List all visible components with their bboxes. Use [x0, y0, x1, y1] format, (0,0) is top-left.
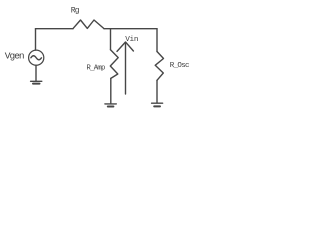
resistor Rg [73, 20, 104, 29]
source Vgen circle [29, 50, 44, 65]
svg-text:Vin: Vin [125, 36, 138, 44]
svg-text:Rg: Rg [71, 7, 80, 16]
svg-text:R_Amp: R_Amp [87, 64, 105, 72]
wire right branch bottom [156, 80, 158, 102]
sine wave [31, 56, 42, 60]
svg-text:R_Osc: R_Osc [170, 62, 189, 70]
arrow Vin shaft [125, 43, 127, 95]
resistor R_Amp [110, 50, 118, 79]
ground G2 [105, 103, 116, 105]
wire right branch top [156, 29, 158, 52]
wire Vgen bottom [35, 65, 37, 81]
wire top right segment [104, 28, 157, 30]
ground G3 [152, 102, 163, 104]
wire Vgen top [35, 29, 37, 50]
svg-text:Vgen: Vgen [5, 50, 24, 61]
ground G1 [31, 80, 42, 82]
resistor R_Osc [155, 52, 163, 81]
wire top left segment [36, 28, 74, 30]
arrow Vin head [117, 42, 133, 51]
wire middle branch top [110, 29, 112, 50]
wire middle branch bottom [110, 78, 112, 103]
